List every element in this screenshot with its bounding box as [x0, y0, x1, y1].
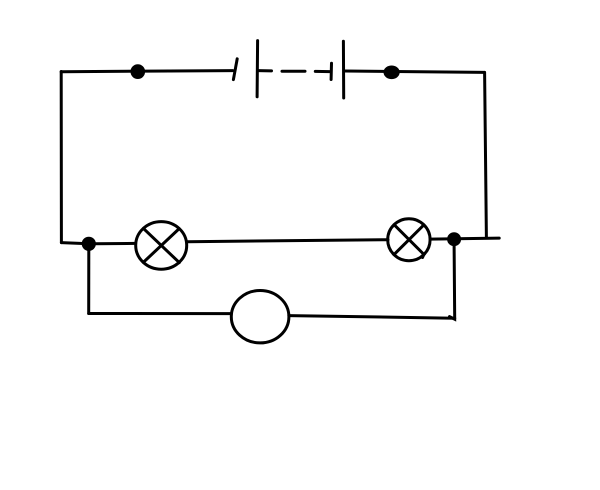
battery BT1 cell2 long plate (positive)	[342, 41, 345, 98]
wire top left horizontal	[61, 71, 233, 72]
wire bottom-left vertical	[87, 249, 90, 314]
node junction dot top-left	[132, 66, 144, 78]
node junction dot mid-right	[449, 234, 460, 245]
battery BT1 dashed link dash 1	[282, 70, 305, 73]
wire meter to bottom-right corner	[289, 316, 455, 319]
battery BT1 cell1 long plate (positive)	[256, 41, 260, 97]
wire to lamp L1	[94, 242, 136, 245]
lamp L1 cross	[143, 228, 179, 262]
wire top right horizontal	[345, 71, 485, 72]
lamp L1 circle	[136, 222, 187, 270]
wire between lamps	[187, 240, 388, 242]
battery BT1 cell2 short plate (negative)	[330, 63, 333, 79]
wire mid-left corner segment	[61, 243, 88, 244]
wire lamp L2 to right node and stub	[430, 238, 499, 239]
battery BT1 dashed link dash 2	[315, 70, 329, 73]
wire right vertical	[485, 72, 487, 237]
lamp L2 cross	[394, 225, 424, 258]
node junction dot top-right	[385, 67, 398, 78]
wire bottom horizontal to meter	[89, 312, 232, 315]
wire left vertical	[60, 72, 63, 243]
lamp L2 circle	[388, 219, 430, 261]
node junction dot mid-left	[83, 238, 94, 249]
wire bottom-right vertical with end hook	[450, 245, 455, 320]
meter M1 circle	[231, 291, 289, 343]
wire stub from cell1 positive plate	[258, 69, 271, 72]
battery BT1 cell1 short plate (negative)	[233, 59, 237, 80]
